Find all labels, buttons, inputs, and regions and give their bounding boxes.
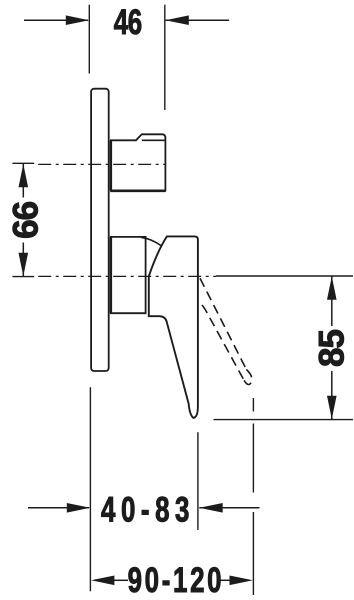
valve body xyxy=(111,134,165,190)
dim 85 line upper xyxy=(331,276,333,326)
escutcheon bottom edge xyxy=(110,312,146,314)
dim 46 right arrowhead xyxy=(165,15,188,25)
dim 46 left arrowhead xyxy=(66,15,89,25)
extension line open lever seg1 xyxy=(252,398,254,412)
extension line left of dim 46 xyxy=(88,5,90,74)
open lever upper dashed edge xyxy=(200,278,246,369)
dim 90-120 right line xyxy=(220,579,232,581)
svg-text:40-83: 40-83 xyxy=(101,490,195,530)
extension line bottom left xyxy=(89,387,91,591)
svg-text:66: 66 xyxy=(6,201,45,238)
extension line open lever seg3 xyxy=(252,512,254,595)
dim 66 down arrowhead xyxy=(19,253,29,276)
svg-text:85: 85 xyxy=(313,330,352,367)
lever tip bottom line xyxy=(214,419,354,421)
dim 66 up arrowhead xyxy=(19,164,29,187)
dim 40-83 left arrowhead xyxy=(67,503,90,513)
valve bottom edge thick xyxy=(110,190,166,193)
extension line open lever seg2 xyxy=(252,424,254,493)
dim 66 line upper xyxy=(22,164,24,198)
open lever tip dashed arc xyxy=(243,370,252,385)
handle outline xyxy=(149,236,198,418)
dim 85 up arrowhead xyxy=(327,276,337,299)
dim 46 left arrow line xyxy=(24,19,88,21)
extension line right of dim 46 xyxy=(164,5,166,110)
centerline valve axis xyxy=(34,163,164,165)
dim 85 line lower xyxy=(331,371,333,419)
svg-text:46: 46 xyxy=(114,2,142,42)
dim 66 bottom tick xyxy=(12,276,34,278)
dim label 90-120 xyxy=(128,560,225,600)
dim 40-83 left arrow line xyxy=(28,507,89,509)
valve left edge thick xyxy=(110,140,112,190)
open lever lower dashed edge xyxy=(198,301,243,379)
wall plate xyxy=(91,89,109,371)
dim 46 right arrow line xyxy=(166,19,229,21)
dim 90-120 left arrowhead xyxy=(91,576,114,586)
centerline handle axis solid right xyxy=(216,275,353,277)
dim 40-83 right arrowhead xyxy=(199,503,222,513)
escutcheon left edge thick xyxy=(110,237,112,313)
dim 85 down arrowhead xyxy=(327,396,337,419)
dim 40-83 right arrow line xyxy=(199,507,259,509)
escutcheon body xyxy=(111,237,146,313)
dim 90-120 right arrowhead xyxy=(230,576,253,586)
dim 66 top tick xyxy=(12,162,34,164)
valve cap inner line xyxy=(142,139,166,141)
dim label 40-83 xyxy=(101,490,195,530)
collar arc xyxy=(141,237,161,246)
dim 66 line lower xyxy=(22,243,24,277)
centerline handle axis dashdot xyxy=(34,275,216,277)
extension line lever tip xyxy=(197,432,199,530)
dim 90-120 left line xyxy=(112,579,128,581)
svg-text:90-120: 90-120 xyxy=(128,560,225,600)
dim label 46 xyxy=(114,2,142,42)
